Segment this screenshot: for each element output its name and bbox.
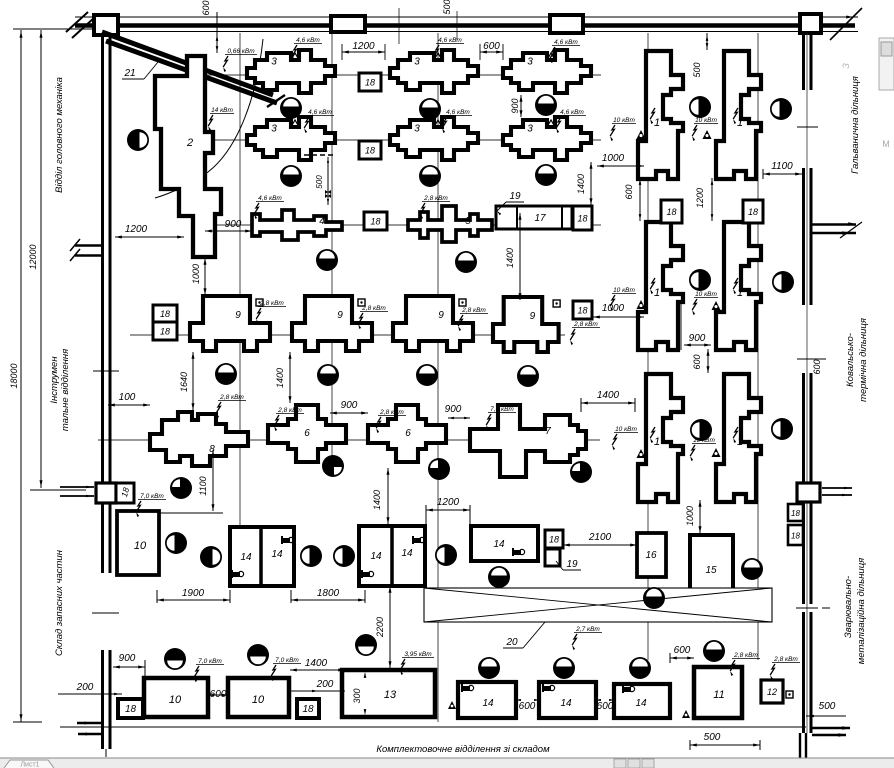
machine 6 #2 <box>368 405 446 462</box>
power 4,6kVt 3-6 <box>556 109 586 133</box>
label 19 top <box>497 191 524 215</box>
room label komplektovochne <box>376 744 550 755</box>
box 16 <box>637 533 666 577</box>
grid axis vertical x332 <box>331 33 333 470</box>
machine 14 b2 <box>539 682 596 718</box>
svg-text:1100: 1100 <box>198 476 208 495</box>
boxes 18 stacked I <box>153 305 177 340</box>
wall left stub y245 <box>70 239 101 261</box>
wall left tick y613 <box>92 612 119 614</box>
label 9 #4 <box>530 311 536 322</box>
svg-text:3,95 кВт: 3,95 кВт <box>404 651 432 658</box>
svg-text:200: 200 <box>316 679 334 690</box>
label 6 #1 <box>304 428 310 439</box>
power 2,8kVt m8 <box>216 394 246 418</box>
room label zvaryuvalno 1 <box>843 576 854 638</box>
svg-text:4: 4 <box>319 216 325 227</box>
svg-text:18: 18 <box>666 207 676 217</box>
svg-text:600: 600 <box>674 645 691 656</box>
svg-text:1400: 1400 <box>505 248 515 268</box>
svg-text:21: 21 <box>123 68 135 79</box>
box 18 E <box>573 206 592 230</box>
wall right bottom stubs <box>800 726 850 760</box>
svg-text:2,8 кВт: 2,8 кВт <box>573 321 598 328</box>
machine 9 #4 <box>493 297 559 352</box>
ui scrollbar right <box>879 38 894 90</box>
grid axis vertical x240 <box>239 33 241 584</box>
svg-text:1000: 1000 <box>602 153 625 164</box>
label 1 <box>650 427 660 448</box>
labels 14 pair1 <box>240 549 283 563</box>
operator circle 24 <box>200 546 222 568</box>
operator circle 7 <box>419 165 441 187</box>
dim 1900 <box>157 588 230 603</box>
wall left lower <box>103 650 111 757</box>
tap pair2 a <box>413 536 425 544</box>
svg-text:2,8 кВт: 2,8 кВт <box>219 394 244 401</box>
svg-text:Відділ головного механіка: Відділ головного механіка <box>54 77 65 193</box>
svg-text:4,6 кВт: 4,6 кВт <box>438 37 462 44</box>
svg-text:900: 900 <box>341 400 358 411</box>
dim 1200 left <box>115 224 184 239</box>
power 10kVt 4 <box>692 291 718 315</box>
svg-text:14 кВт: 14 кВт <box>211 107 233 114</box>
label 3 #1 <box>271 57 277 68</box>
operator circle 25 <box>300 545 322 567</box>
dim 900 66 <box>330 400 368 415</box>
operator circle 4 <box>689 96 711 118</box>
svg-text:18: 18 <box>577 214 587 224</box>
wall right stub arrows y488 <box>822 487 852 497</box>
svg-text:Лист1: Лист1 <box>20 762 39 768</box>
machine 1 row3 col2 <box>716 374 761 502</box>
power 2,8kVt m5 <box>420 195 450 219</box>
power 10kVt 5 <box>612 426 638 450</box>
label 12 <box>767 687 777 697</box>
svg-text:18: 18 <box>791 509 800 518</box>
svg-text:18: 18 <box>549 535 559 545</box>
operator circle 37 <box>703 640 725 662</box>
grid axis horizontal y335 <box>130 334 565 336</box>
svg-text:Зварювально-: Зварювально- <box>843 576 854 638</box>
power 10kVt 3 <box>610 287 636 311</box>
svg-text:2,8 кВт: 2,8 кВт <box>461 307 486 314</box>
power 0,66kVt <box>223 48 257 72</box>
machine 10 #2 <box>228 678 289 717</box>
label 1 <box>733 108 743 129</box>
wall left tick y371 <box>93 370 119 372</box>
svg-text:15: 15 <box>705 565 717 576</box>
dim 600 b1 <box>516 699 539 712</box>
svg-text:7,0 кВт: 7,0 кВт <box>198 658 222 665</box>
svg-text:10: 10 <box>134 540 147 552</box>
dim 600 top <box>201 0 218 53</box>
label 9 #2 <box>337 310 343 321</box>
dim 1000 15 <box>685 500 702 533</box>
labels 14 pair2 <box>370 548 413 562</box>
label 10 #1 <box>169 694 182 706</box>
svg-text:6: 6 <box>304 428 310 439</box>
machine 10 store <box>117 511 159 575</box>
operator circle 35 <box>553 657 575 679</box>
box 14 pair 2 <box>359 526 425 586</box>
box 14 single <box>471 526 538 561</box>
label 8 <box>209 444 215 455</box>
svg-text:14: 14 <box>560 698 572 709</box>
tap 14b2 <box>543 684 555 692</box>
svg-text:1: 1 <box>654 117 660 129</box>
svg-text:М: М <box>882 139 890 149</box>
room line bottom <box>60 726 806 728</box>
dim 100 <box>108 392 150 407</box>
operator circle 33 <box>355 634 377 656</box>
svg-text:1: 1 <box>737 287 743 299</box>
room label instrumentalne 1 <box>49 356 60 404</box>
label 20 <box>503 622 545 648</box>
svg-text:18: 18 <box>370 217 380 227</box>
wall right seg1 <box>804 33 812 90</box>
label 6 #2 <box>405 428 411 439</box>
svg-text:19: 19 <box>509 191 521 202</box>
dim 200 bl <box>58 682 122 695</box>
svg-text:4,6 кВт: 4,6 кВт <box>554 39 578 46</box>
power 4,6kVt 3-5 <box>442 109 472 133</box>
svg-text:1000: 1000 <box>685 506 695 526</box>
column A2 <box>331 16 365 32</box>
operator circle 5 <box>770 98 792 120</box>
svg-text:9: 9 <box>438 310 444 321</box>
tap 14b3 <box>623 685 635 693</box>
label 17 <box>534 213 546 224</box>
svg-text:900: 900 <box>119 653 136 664</box>
label 9 #3 <box>438 310 444 321</box>
operator circle 30 <box>643 587 665 609</box>
power label 14kVt machine2 <box>208 107 234 131</box>
label 11 <box>713 689 724 701</box>
wall right tick y608 <box>796 607 830 609</box>
machine 1 row1 col2 <box>716 51 761 179</box>
svg-text:20: 20 <box>505 637 518 648</box>
svg-text:12000: 12000 <box>28 244 38 269</box>
triangle marker 3 #6 <box>547 120 555 127</box>
dim 500 dashed <box>304 155 336 205</box>
dim 500 right <box>806 701 846 717</box>
svg-text:2,8 кВт: 2,8 кВт <box>423 195 448 202</box>
power 2,8kVt 6-1 <box>274 407 304 431</box>
machine 1 row2 col2 <box>716 222 761 350</box>
warning triangle <box>703 130 712 139</box>
box 18 C <box>364 212 387 230</box>
label 21 <box>122 62 158 79</box>
warning triangle <box>637 130 646 139</box>
operator circle 16 <box>517 365 539 387</box>
wall right tick y359 <box>797 358 826 360</box>
dim 500 top <box>442 0 452 15</box>
dim 2100 <box>563 532 637 547</box>
svg-text:600: 600 <box>692 354 702 369</box>
warning triangle 14b1 <box>448 701 456 709</box>
operator circle 36 <box>629 657 651 679</box>
machine 8 <box>150 412 248 466</box>
operator circle 15 <box>416 364 438 386</box>
room label zvaryuvalno 2 <box>856 558 867 664</box>
square marker 12 <box>786 691 793 698</box>
svg-text:8: 8 <box>209 444 215 455</box>
dim 1800 <box>291 588 365 603</box>
operator circle 19 <box>428 458 450 480</box>
svg-text:10: 10 <box>252 694 265 706</box>
svg-text:14: 14 <box>635 698 647 709</box>
svg-text:1400: 1400 <box>275 368 285 388</box>
svg-text:термічна дільниця: термічна дільниця <box>858 318 869 402</box>
power 2,8kVt 11 <box>730 652 760 676</box>
svg-text:1400: 1400 <box>597 390 620 401</box>
wall left stub arrows y487 <box>60 486 94 498</box>
room label sklad <box>54 549 65 656</box>
box 18 left column <box>116 483 134 503</box>
machine 7 <box>470 405 586 477</box>
operator circle 32 <box>247 644 269 666</box>
svg-text:2,8 кВт: 2,8 кВт <box>259 300 284 307</box>
power 7,0kVt 10-1 <box>194 658 224 682</box>
operator circle 10 <box>772 271 794 293</box>
room label galvanichna <box>850 76 861 174</box>
room label instrumentalne 2 <box>60 349 71 431</box>
wall right seg4 <box>804 502 812 604</box>
box 14 pair 1 <box>230 527 294 586</box>
svg-text:200: 200 <box>76 682 94 693</box>
svg-text:2,8 кВт: 2,8 кВт <box>361 305 386 312</box>
svg-text:1: 1 <box>654 436 660 448</box>
svg-text:900: 900 <box>510 98 520 113</box>
machine 12 <box>761 680 783 703</box>
svg-text:1200: 1200 <box>695 188 705 208</box>
svg-text:7: 7 <box>545 426 551 437</box>
dim 600 b2 <box>596 699 614 712</box>
svg-text:14: 14 <box>493 539 505 550</box>
svg-text:13: 13 <box>384 689 397 701</box>
dim 1400 9row <box>275 352 292 403</box>
svg-text:2,8 кВт: 2,8 кВт <box>733 652 758 659</box>
svg-text:500: 500 <box>442 0 452 15</box>
grid axis horizontal y75 <box>205 74 601 76</box>
grid axis vertical x648 <box>647 33 649 660</box>
svg-text:7,0 кВт: 7,0 кВт <box>275 657 299 664</box>
box 18 K <box>545 530 563 548</box>
box 18 P <box>297 699 319 718</box>
svg-text:3: 3 <box>414 124 420 135</box>
svg-text:18: 18 <box>302 704 314 715</box>
area 20 crossed <box>424 588 772 622</box>
svg-text:Комплектовочне відділення зі с: Комплектовочне відділення зі складом <box>376 744 550 755</box>
triangle marker 3 #2 <box>434 53 442 60</box>
power 2,8kVt 6-2 <box>376 409 406 433</box>
svg-text:10 кВт: 10 кВт <box>695 117 717 124</box>
svg-text:10 кВт: 10 кВт <box>613 287 635 294</box>
tap pair2 b <box>362 570 374 578</box>
svg-text:14: 14 <box>401 548 413 559</box>
machine 3 #4 <box>247 117 335 160</box>
svg-text:3: 3 <box>271 57 277 68</box>
operator circle 20 <box>570 461 592 483</box>
machine 1 row3 col1 <box>638 374 683 502</box>
triangle marker 3 #3 <box>547 53 555 60</box>
operator circle 13 <box>215 363 237 385</box>
operator circle 27 <box>435 544 457 566</box>
label 19 bottom <box>556 559 581 570</box>
operator circle 14 <box>317 364 339 386</box>
label 3 #3 <box>527 57 533 68</box>
tap pair1 b <box>232 570 244 578</box>
dim 1400 rows45 <box>372 468 390 524</box>
label 9 #1 <box>235 310 241 321</box>
svg-text:0,66 кВт: 0,66 кВт <box>227 48 255 55</box>
svg-text:900: 900 <box>445 404 462 415</box>
svg-text:1200: 1200 <box>437 497 460 508</box>
wall right branch y225 <box>812 222 862 238</box>
svg-text:17: 17 <box>534 213 546 224</box>
operator circle 3 <box>535 94 557 116</box>
power 10kVt 2 <box>692 117 718 141</box>
box 18 F <box>573 301 592 319</box>
dim 900 67 <box>445 404 470 419</box>
svg-text:1200: 1200 <box>352 41 375 52</box>
machine 3 #6 <box>503 117 591 160</box>
svg-text:7,0 кВт: 7,0 кВт <box>140 493 164 500</box>
label 3 #5 <box>414 124 420 135</box>
operator circle 34 <box>478 657 500 679</box>
machine 6 #1 <box>268 405 346 462</box>
svg-text:З: З <box>841 63 851 69</box>
svg-text:10: 10 <box>169 694 182 706</box>
svg-text:18: 18 <box>577 306 587 316</box>
machine 9 #1 <box>190 296 270 351</box>
svg-text:12: 12 <box>767 687 777 697</box>
svg-text:900: 900 <box>689 333 706 344</box>
label 7 <box>545 426 551 437</box>
warning triangle <box>637 300 646 309</box>
machine 13 <box>342 670 435 717</box>
wall top break right <box>830 8 862 40</box>
operator circle 8 <box>535 164 557 186</box>
svg-text:1100: 1100 <box>771 161 793 172</box>
svg-text:1: 1 <box>737 436 743 448</box>
dim 900 left <box>205 219 252 233</box>
svg-text:2200: 2200 <box>375 617 385 638</box>
svg-text:Склад запасних частин: Склад запасних частин <box>54 549 65 656</box>
svg-text:18000: 18000 <box>9 363 19 388</box>
operator circle 21 <box>690 419 712 441</box>
dim 1400 7 <box>581 390 635 412</box>
ui grey glyph right <box>841 63 851 69</box>
power 2,8kVt 12 <box>770 656 800 680</box>
square marker 9 #2 <box>358 299 365 306</box>
dim 600 10s <box>208 689 228 700</box>
svg-text:2,7 кВт: 2,7 кВт <box>575 626 600 633</box>
operator circle machine2 <box>127 129 149 151</box>
label 5 <box>465 216 471 227</box>
power 2,8kVt 9-3 <box>458 307 488 331</box>
dim 900 bl <box>113 653 145 678</box>
dim 1100 right <box>763 161 802 179</box>
svg-text:11: 11 <box>713 689 724 701</box>
operator circle 18 <box>322 455 344 477</box>
dim 500 col1 <box>692 33 708 78</box>
dim 1400 mid <box>505 213 522 300</box>
power 2,8kVt 9-1 <box>256 300 286 324</box>
dim 600 11 <box>670 645 694 663</box>
box 18 G <box>661 200 682 223</box>
svg-text:4,6 кВт: 4,6 кВт <box>446 109 470 116</box>
dim 2200 <box>375 586 392 668</box>
power 3,95kVt 13 <box>400 651 434 675</box>
svg-text:Інструмен: Інструмен <box>49 356 60 404</box>
label 14 b1 <box>482 698 494 709</box>
label 3 #2 <box>414 57 420 68</box>
power 10kVt 1 <box>610 117 636 141</box>
svg-text:1400: 1400 <box>576 174 586 194</box>
operator circle 22 <box>771 418 793 440</box>
machine 1 row2 col1 <box>638 222 683 350</box>
box 18 A <box>359 73 381 91</box>
dim 1000 row1 right <box>597 153 644 168</box>
grid axis vertical tick x457 <box>456 11 458 40</box>
machine 10 #1 <box>144 678 208 717</box>
dim 600 col1 rows <box>624 178 641 221</box>
dim 600 row1 <box>480 41 503 60</box>
svg-text:1400: 1400 <box>372 490 382 510</box>
dim 1100 8-10 <box>198 450 215 511</box>
grid axis horizontal y440 <box>98 439 600 441</box>
svg-text:16: 16 <box>645 550 657 561</box>
svg-text:600: 600 <box>812 359 822 374</box>
dim 300 rot <box>352 672 366 715</box>
ui grey M right <box>882 139 890 149</box>
room label kovalsko 2 <box>858 318 869 402</box>
wall right seg3 <box>804 373 812 483</box>
svg-text:18: 18 <box>791 532 800 541</box>
grid axis vertical x438 <box>437 33 439 722</box>
svg-text:2,8 кВт: 2,8 кВт <box>379 409 404 416</box>
svg-text:5: 5 <box>465 216 471 227</box>
machine 5 <box>408 206 492 242</box>
svg-text:9: 9 <box>337 310 343 321</box>
machine 11 <box>694 667 742 718</box>
crane beam 21 <box>102 32 285 107</box>
svg-text:1900: 1900 <box>182 588 205 599</box>
svg-text:900: 900 <box>225 219 242 230</box>
operator circle 26 <box>333 545 355 567</box>
svg-text:4,6 кВт: 4,6 кВт <box>308 109 332 116</box>
svg-text:500: 500 <box>692 62 702 77</box>
machine 9 #3 <box>393 296 473 351</box>
dim 1200 row1 <box>342 41 385 60</box>
svg-text:18: 18 <box>160 327 170 337</box>
label 2 <box>186 137 193 149</box>
operator circle 17 <box>170 477 192 499</box>
wall left bottom stubs <box>77 722 102 736</box>
column A3 <box>550 15 583 33</box>
operator circle 28 <box>488 566 510 588</box>
svg-text:Ковальсько-: Ковальсько- <box>845 333 856 387</box>
box 18 B <box>359 141 381 159</box>
svg-text:1200: 1200 <box>125 224 148 235</box>
column left B <box>96 483 116 503</box>
box 18 O <box>118 699 143 718</box>
wall right axis thin <box>806 33 808 733</box>
machine 4 <box>252 210 342 240</box>
tap 14b1 <box>462 684 474 692</box>
